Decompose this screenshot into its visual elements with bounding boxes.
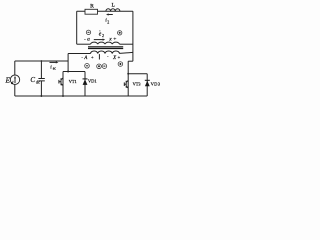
capacitor Cdc bbox=[30, 60, 44, 97]
primary terminal circle 1 (minus, A end) bbox=[85, 64, 90, 69]
svg-text:2: 2 bbox=[107, 20, 109, 25]
wire: top rail from Ed bbox=[15, 60, 68, 62]
wire: riser from rail to primary (centre tap feed) bbox=[67, 54, 69, 72]
terminal circle plus (secondary x side) bbox=[118, 31, 122, 35]
svg-text:- a: - a bbox=[84, 36, 90, 42]
wire: primary lead left bbox=[68, 53, 90, 55]
transistor VT3 bbox=[124, 80, 140, 88]
wire: load loop left edge bbox=[76, 11, 78, 44]
svg-text:dc: dc bbox=[36, 80, 40, 85]
svg-text:A: A bbox=[83, 56, 87, 61]
svg-text:L: L bbox=[111, 2, 115, 8]
svg-text:+: + bbox=[91, 55, 94, 60]
wire: load loop top edge bbox=[77, 10, 133, 12]
wire: load loop bottom edge left part bbox=[77, 43, 91, 45]
svg-text:R: R bbox=[90, 3, 94, 9]
svg-text:ac: ac bbox=[53, 67, 57, 71]
svg-text:2: 2 bbox=[102, 33, 104, 38]
transistor VT1 bbox=[59, 72, 77, 97]
primary polarity labels X+ bbox=[112, 54, 120, 61]
junction dot at VT3/VD3 top bbox=[127, 73, 129, 75]
wire: VT3 leg upper bbox=[127, 61, 129, 96]
svg-text:VD3: VD3 bbox=[151, 81, 161, 86]
inductor L bbox=[106, 2, 120, 11]
svg-text:VT1: VT1 bbox=[69, 79, 77, 84]
svg-text:C: C bbox=[30, 76, 35, 84]
wire: load loop right edge bbox=[132, 11, 134, 61]
transformer secondary winding bbox=[91, 42, 120, 44]
wire: right leg top link bbox=[128, 73, 147, 75]
wire: bottom rail bbox=[15, 95, 147, 97]
wire: primary lead right bbox=[120, 52, 133, 53]
svg-text:+: + bbox=[118, 54, 121, 59]
wire: left leg top link bbox=[63, 71, 85, 73]
diode VD1 bbox=[83, 72, 97, 97]
current arrow i2 bbox=[105, 13, 113, 24]
wire: load loop bottom edge right part bbox=[120, 43, 133, 45]
terminal circle minus (secondary a side) bbox=[86, 30, 90, 34]
junction dot at VT1 emitter on bottom rail bbox=[62, 95, 64, 97]
primary terminal circle 4 (plus, X end) bbox=[118, 62, 123, 67]
primary terminal circle 2 (plus, centre tap) bbox=[97, 64, 102, 69]
junction dot at VT1/VD1 top bbox=[67, 71, 69, 73]
transformer primary winding bbox=[91, 51, 120, 54]
svg-text:E: E bbox=[5, 75, 11, 84]
wire: jog to VT3 leg bbox=[128, 60, 133, 62]
svg-text:VD1: VD1 bbox=[88, 78, 97, 83]
svg-text:VT3: VT3 bbox=[133, 81, 141, 86]
current label i_ac with arrow bbox=[50, 61, 59, 70]
resistor R bbox=[85, 3, 98, 14]
transformer core bbox=[88, 47, 123, 49]
primary terminal circle 3 (minus, centre tap) bbox=[102, 64, 107, 69]
diode VD3 bbox=[145, 74, 161, 96]
primary polarity labels -A+ bbox=[81, 54, 109, 61]
EMF e2 label with arrow bbox=[94, 30, 105, 40]
dc source Ed bbox=[5, 61, 20, 96]
